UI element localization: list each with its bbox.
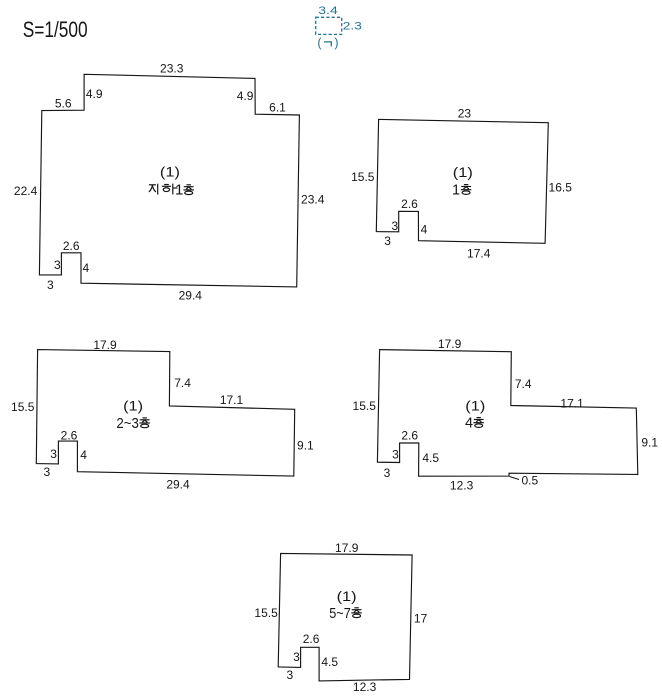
svg-text:4.9: 4.9 (237, 89, 254, 103)
4F 0.5 leader line (510, 477, 520, 480)
svg-text:(1): (1) (465, 399, 485, 414)
floor outline: 2-3F (2~3층) (36, 350, 294, 477)
svg-text:17.4: 17.4 (467, 247, 491, 261)
svg-text:7.4: 7.4 (515, 377, 532, 391)
svg-text:12.3: 12.3 (450, 479, 474, 493)
svg-text:17.9: 17.9 (93, 338, 117, 352)
floor outline: basement (지하1층) (39, 74, 299, 287)
svg-text:2.6: 2.6 (401, 197, 418, 211)
svg-text:(1): (1) (337, 589, 357, 604)
svg-text:2.6: 2.6 (303, 632, 320, 646)
svg-text:3: 3 (384, 466, 391, 480)
floor outline: 4F (4층) (377, 350, 637, 477)
svg-text:(1): (1) (160, 165, 180, 180)
svg-text:23.4: 23.4 (301, 193, 325, 207)
svg-text:12.3: 12.3 (353, 680, 377, 694)
svg-text:15.5: 15.5 (254, 606, 278, 620)
svg-text:6.1: 6.1 (269, 100, 286, 114)
svg-text:3: 3 (293, 650, 300, 664)
svg-text:1: 1 (452, 183, 460, 199)
svg-text:4.5: 4.5 (321, 655, 338, 669)
svg-text:2.6: 2.6 (63, 239, 80, 253)
svg-text:0.5: 0.5 (521, 473, 538, 487)
svg-text:S=1/500: S=1/500 (23, 17, 88, 42)
key plan dashed rectangle (teal) (316, 17, 342, 34)
svg-text:29.4: 29.4 (166, 478, 190, 492)
svg-text:22.4: 22.4 (14, 184, 38, 198)
svg-text:7.4: 7.4 (174, 376, 191, 390)
svg-text:4: 4 (83, 261, 90, 275)
svg-text:3: 3 (50, 447, 57, 461)
svg-text:23: 23 (458, 106, 472, 120)
svg-text:5~7: 5~7 (329, 606, 351, 622)
basement label 지하1층 (149, 184, 158, 195)
svg-text:15.5: 15.5 (351, 170, 375, 184)
svg-text:(1): (1) (123, 399, 143, 414)
svg-text:3: 3 (384, 234, 391, 248)
svg-text:4: 4 (421, 223, 428, 237)
svg-text:2.6: 2.6 (401, 428, 418, 442)
svg-text:3: 3 (47, 278, 54, 292)
svg-text:4.9: 4.9 (86, 87, 103, 101)
svg-text:17.9: 17.9 (335, 541, 359, 555)
svg-text:1: 1 (175, 181, 183, 198)
svg-text:15.5: 15.5 (11, 400, 35, 414)
svg-text:4: 4 (465, 416, 473, 432)
svg-text:2.6: 2.6 (61, 428, 78, 442)
svg-text:3: 3 (54, 258, 61, 272)
svg-text:3: 3 (43, 465, 50, 479)
svg-text:17: 17 (414, 611, 428, 625)
svg-text:16.5: 16.5 (549, 181, 573, 195)
svg-text:5.6: 5.6 (55, 96, 72, 110)
svg-text:9.1: 9.1 (297, 439, 314, 453)
floor outline: 1F (1층) (376, 119, 548, 243)
svg-text:15.5: 15.5 (353, 399, 377, 413)
svg-text:3.4: 3.4 (318, 5, 338, 17)
svg-text:): ) (334, 36, 338, 50)
svg-text:2.3: 2.3 (343, 21, 362, 33)
svg-text:4: 4 (80, 448, 87, 462)
svg-text:17.1: 17.1 (220, 393, 244, 407)
svg-text:3: 3 (392, 447, 399, 461)
svg-text:23.3: 23.3 (160, 62, 184, 76)
floor outline: 5-7F (5~7층) (278, 553, 412, 681)
svg-text:4.5: 4.5 (422, 451, 439, 465)
svg-text:3: 3 (287, 668, 294, 682)
svg-text:2~3: 2~3 (116, 416, 139, 432)
svg-text:(1): (1) (453, 165, 473, 180)
svg-text:(: ( (317, 36, 322, 50)
svg-text:17.9: 17.9 (438, 337, 462, 351)
svg-text:3: 3 (392, 219, 399, 233)
svg-text:29.4: 29.4 (179, 289, 203, 303)
svg-text:17.1: 17.1 (560, 396, 584, 410)
svg-text:9.1: 9.1 (641, 435, 658, 449)
